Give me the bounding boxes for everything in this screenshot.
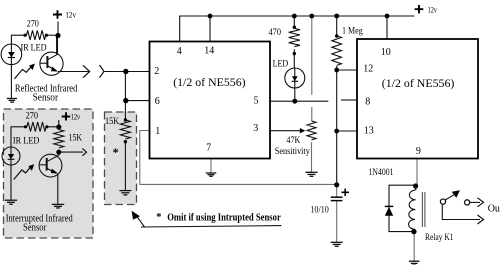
svg-text:6: 6	[155, 96, 160, 107]
svg-text:9: 9	[416, 146, 421, 157]
svg-text:12v: 12v	[428, 5, 438, 15]
svg-text:Sensor: Sensor	[33, 92, 59, 103]
svg-text:Omit if using Intrupted Sensor: Omit if using Intrupted Sensor	[167, 213, 281, 224]
svg-text:1 Meg: 1 Meg	[342, 25, 363, 35]
svg-text:Sensitivity: Sensitivity	[275, 146, 310, 156]
svg-text:7: 7	[206, 143, 211, 154]
svg-text:15K: 15K	[105, 116, 120, 126]
svg-text:2: 2	[154, 66, 159, 77]
svg-text:Out: Out	[488, 204, 500, 215]
svg-text:8: 8	[365, 97, 370, 108]
svg-text:12: 12	[363, 64, 373, 75]
svg-text:(1/2 of NE556): (1/2 of NE556)	[173, 75, 245, 89]
svg-text:47K: 47K	[286, 135, 300, 145]
svg-text:15K: 15K	[69, 133, 83, 143]
svg-text:Sensor: Sensor	[23, 222, 47, 233]
svg-text:IR LED: IR LED	[21, 43, 47, 53]
svg-text:470: 470	[269, 27, 282, 37]
svg-text:270: 270	[27, 20, 40, 30]
svg-text:270: 270	[26, 111, 39, 121]
svg-text:1N4001: 1N4001	[369, 168, 394, 178]
svg-text:5: 5	[254, 96, 259, 107]
svg-text:4: 4	[177, 46, 182, 57]
svg-text:1: 1	[155, 126, 160, 137]
svg-text:10/10: 10/10	[310, 204, 329, 214]
svg-text:Relay K1: Relay K1	[425, 233, 454, 243]
svg-text:12v: 12v	[65, 10, 76, 20]
svg-text:14: 14	[204, 46, 214, 57]
svg-text:13: 13	[364, 125, 374, 136]
svg-text:10: 10	[381, 47, 391, 58]
svg-text:LED: LED	[273, 58, 289, 68]
svg-text:(1/2 of NE556): (1/2 of NE556)	[382, 76, 455, 90]
svg-text:*: *	[113, 145, 119, 159]
svg-text:IR LED: IR LED	[13, 135, 40, 145]
svg-text:*: *	[156, 212, 161, 223]
svg-text:12v: 12v	[71, 112, 81, 122]
svg-text:3: 3	[253, 123, 258, 134]
